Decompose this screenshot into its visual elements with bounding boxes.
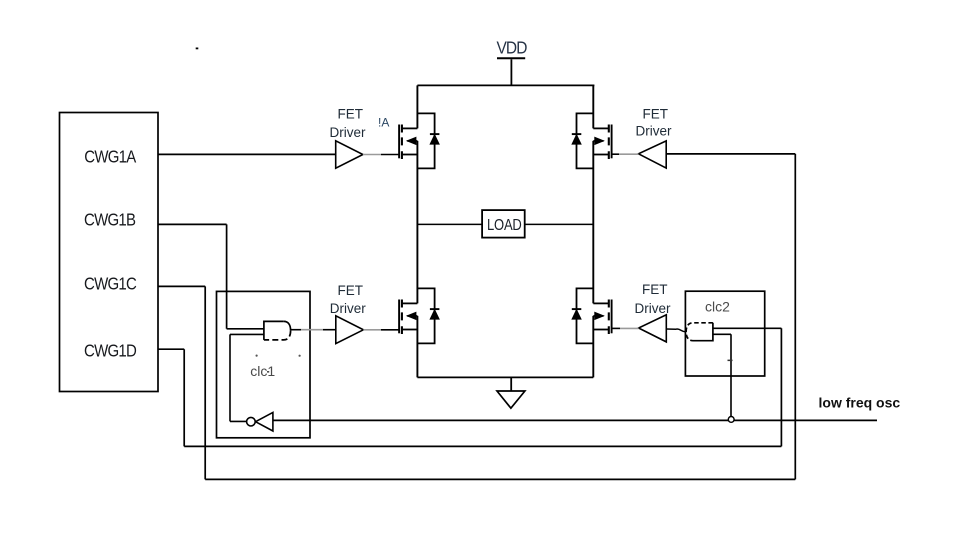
- label FET Driver U1: [330, 106, 367, 140]
- stray dash mark: [196, 48, 199, 50]
- wire G3 output to driver U4: [666, 329, 686, 332]
- wire G3 input 2 to low freq node: [713, 334, 731, 419]
- transistor Q2 (top-right NMOS): [593, 125, 611, 160]
- wire low freq osc: [273, 419, 877, 421]
- transistor Q4 (bottom-right NMOS): [593, 300, 611, 335]
- wire load rail: [417, 223, 593, 225]
- svg-text:Driver: Driver: [330, 125, 367, 140]
- ground: [497, 377, 525, 408]
- body diode D1: [417, 113, 439, 168]
- FET driver U2 (top-right buffer, mirrored): [612, 141, 667, 168]
- svg-text:FET: FET: [643, 106, 669, 121]
- wire inverter G2 output to G1 input 2: [230, 334, 264, 421]
- label FET Driver U3: [330, 283, 367, 316]
- AND gate G3 (in clc2, mirrored): [686, 323, 713, 341]
- body diode D3: [417, 288, 439, 343]
- wire CWG1C to top-right driver U2 input (long feedback): [158, 154, 795, 480]
- label low freq osc: [819, 395, 901, 411]
- wire G1 output to driver U3: [291, 329, 336, 331]
- wire CWG1D to clc2 AND input 1 (long feedback): [158, 328, 781, 446]
- body diode D2: [572, 113, 594, 168]
- svg-text:LOAD: LOAD: [487, 217, 522, 234]
- svg-text:CWG1A: CWG1A: [84, 146, 136, 167]
- inverter G2 (in clc1): [247, 412, 273, 431]
- stray dot 2: [299, 355, 301, 357]
- wire right bridge vertical: [592, 85, 594, 377]
- svg-text:!A: !A: [378, 116, 389, 130]
- pin label CWG1B: [84, 209, 136, 230]
- svg-text:VDD: VDD: [497, 39, 528, 58]
- wire left bridge vertical: [416, 85, 418, 377]
- svg-text:FET: FET: [338, 283, 364, 298]
- CWG module box: [60, 113, 159, 392]
- clc2 box: [685, 291, 764, 376]
- svg-text:Driver: Driver: [636, 124, 673, 139]
- svg-text:CWG1B: CWG1B: [84, 209, 136, 230]
- transistor Q3 (bottom-left NMOS): [399, 300, 417, 335]
- pin label CWG1A: [84, 146, 136, 167]
- wire top rail: [417, 84, 594, 86]
- svg-text:Driver: Driver: [635, 301, 672, 316]
- FET driver U4 (bottom-right buffer, mirrored): [612, 315, 667, 342]
- stray hyphen mark in clc1: [267, 371, 269, 373]
- pin label CWG1D: [84, 340, 137, 361]
- LOAD box: [482, 210, 525, 238]
- VDD label: [497, 39, 528, 58]
- svg-text:FET: FET: [338, 106, 364, 121]
- stray dot 1: [256, 355, 258, 357]
- svg-text:FET: FET: [642, 282, 668, 297]
- clc1 box: [217, 291, 311, 437]
- label clc1: [250, 363, 275, 379]
- label !A: [378, 116, 389, 130]
- label clc2: [705, 299, 730, 315]
- transistor Q1 (top-left NMOS): [399, 125, 417, 160]
- svg-text:low freq osc: low freq osc: [819, 395, 901, 411]
- wire CWG1B to clc1 AND input 1: [158, 224, 264, 328]
- svg-text:CWG1C: CWG1C: [84, 273, 137, 294]
- node junction (open circle): [728, 417, 734, 423]
- FET driver U3 (bottom-left buffer): [336, 316, 399, 344]
- VDD symbol: [497, 58, 525, 85]
- svg-text:clc1: clc1: [250, 363, 275, 379]
- AND gate G1 (in clc1): [264, 321, 291, 340]
- svg-text:CWG1D: CWG1D: [84, 340, 137, 361]
- pin label CWG1C: [84, 273, 137, 294]
- wire CWG1A to driver U1: [158, 153, 336, 155]
- wire bottom rail: [417, 376, 593, 378]
- label FET Driver U4: [635, 282, 672, 316]
- svg-text:Driver: Driver: [330, 301, 367, 316]
- svg-text:clc2: clc2: [705, 299, 730, 315]
- FET driver U1 (top-left buffer): [336, 141, 399, 168]
- stray tick: [728, 360, 733, 362]
- label FET Driver U2: [636, 106, 673, 138]
- body diode D4: [572, 288, 594, 343]
